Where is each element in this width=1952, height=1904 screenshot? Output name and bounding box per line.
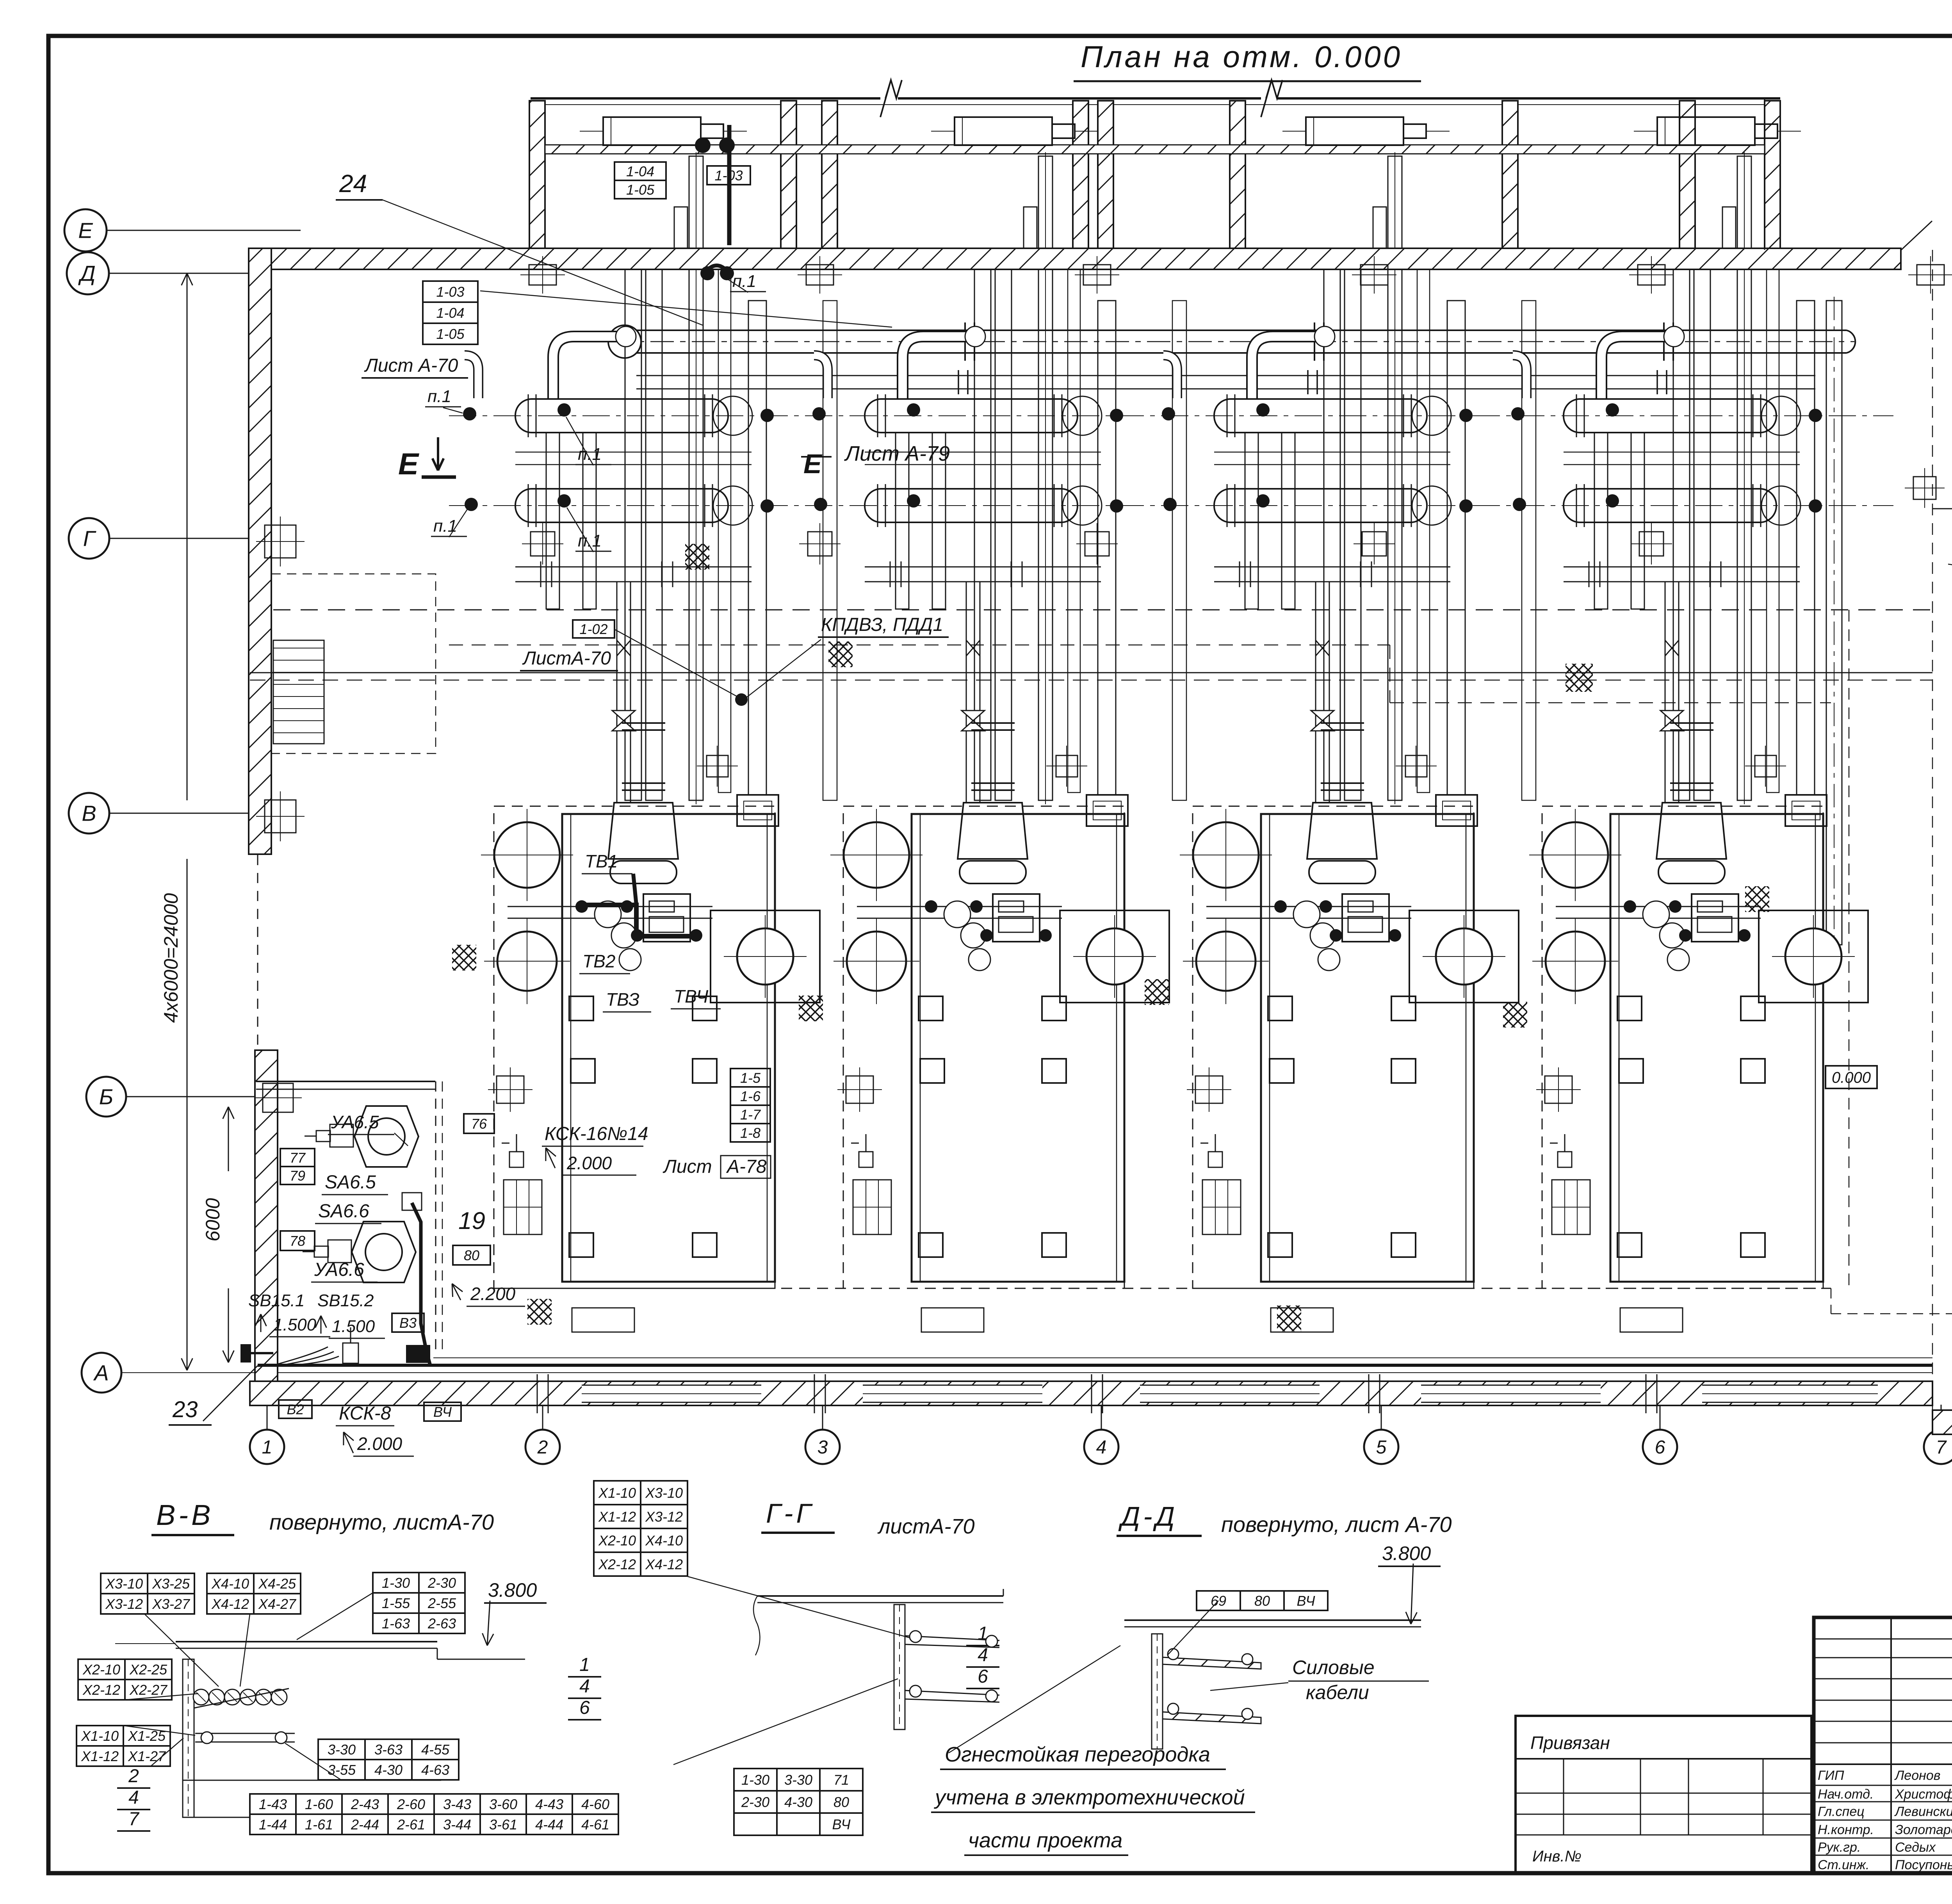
svg-text:3-61: 3-61 (489, 1817, 517, 1833)
svg-text:1-04: 1-04 (436, 305, 464, 321)
svg-text:Х1-12: Х1-12 (81, 1748, 119, 1764)
svg-text:Б: Б (99, 1085, 113, 1109)
svg-text:6: 6 (579, 1697, 590, 1718)
svg-text:листА-70: листА-70 (877, 1515, 975, 1538)
svg-text:Х1-12: Х1-12 (598, 1509, 636, 1525)
svg-text:4-55: 4-55 (421, 1742, 450, 1758)
svg-text:кабели: кабели (1306, 1681, 1369, 1703)
svg-text:В2: В2 (287, 1401, 304, 1417)
svg-text:2.000: 2.000 (357, 1434, 403, 1454)
svg-text:Д: Д (78, 261, 95, 286)
svg-text:19: 19 (458, 1208, 485, 1234)
svg-text:Х4-25: Х4-25 (258, 1576, 296, 1592)
svg-text:Посупонько: Посупонько (1895, 1858, 1952, 1872)
svg-text:Х1-27: Х1-27 (128, 1748, 166, 1764)
svg-text:1-30: 1-30 (741, 1772, 769, 1788)
svg-text:3: 3 (817, 1437, 828, 1458)
svg-text:п.1: п.1 (433, 517, 457, 536)
svg-text:80: 80 (1254, 1593, 1270, 1609)
svg-text:78: 78 (290, 1233, 305, 1249)
svg-text:1-61: 1-61 (305, 1817, 333, 1833)
svg-text:Ст.инж.: Ст.инж. (1818, 1858, 1869, 1872)
svg-text:3-30: 3-30 (784, 1772, 812, 1788)
svg-text:п.1: п.1 (578, 531, 602, 550)
svg-text:ТВЧ: ТВЧ (674, 986, 709, 1006)
svg-text:Христофоров: Христофоров (1895, 1787, 1952, 1802)
svg-text:Левинский: Левинский (1894, 1804, 1952, 1819)
svg-text:SA6.5: SA6.5 (325, 1172, 376, 1193)
svg-text:4: 4 (1096, 1437, 1107, 1458)
svg-text:Гл.спец: Гл.спец (1818, 1804, 1865, 1819)
svg-text:п.1: п.1 (732, 272, 756, 291)
svg-text:Х2-10: Х2-10 (598, 1532, 636, 1548)
svg-text:Г-Г: Г-Г (766, 1498, 814, 1528)
svg-text:Х3-27: Х3-27 (152, 1596, 191, 1612)
svg-text:Х4-10: Х4-10 (645, 1532, 683, 1548)
svg-text:SB15.1: SB15.1 (248, 1291, 305, 1310)
svg-text:3-30: 3-30 (328, 1742, 356, 1758)
svg-text:Силовые: Силовые (1292, 1656, 1375, 1678)
svg-text:2: 2 (128, 1766, 139, 1786)
svg-text:1.500: 1.500 (332, 1317, 375, 1336)
svg-text:4: 4 (579, 1676, 590, 1697)
svg-text:1-30: 1-30 (382, 1575, 410, 1591)
svg-text:6: 6 (1655, 1437, 1665, 1458)
svg-text:КСК-16№14: КСК-16№14 (545, 1124, 648, 1144)
svg-text:учтена в электротехнической: учтена в электротехнической (933, 1786, 1245, 1809)
svg-text:2-30: 2-30 (741, 1794, 769, 1810)
svg-text:части проекта: части проекта (968, 1829, 1122, 1852)
svg-text:1-55: 1-55 (382, 1595, 410, 1611)
svg-text:1-05: 1-05 (436, 326, 465, 342)
svg-text:повернуто, листА-70: повернуто, листА-70 (269, 1510, 494, 1534)
svg-text:1-05: 1-05 (626, 182, 655, 198)
svg-text:7: 7 (1936, 1437, 1947, 1458)
svg-text:Е: Е (398, 447, 419, 481)
svg-text:4-30: 4-30 (374, 1762, 403, 1778)
svg-text:71: 71 (834, 1772, 849, 1788)
svg-text:ТВ2: ТВ2 (582, 951, 615, 971)
svg-text:6: 6 (978, 1666, 988, 1687)
svg-text:3-55: 3-55 (328, 1762, 356, 1778)
svg-text:Х4-12: Х4-12 (645, 1556, 683, 1572)
svg-text:Привязан: Привязан (1530, 1733, 1610, 1753)
svg-text:3-60: 3-60 (489, 1796, 517, 1812)
svg-text:Х3-10: Х3-10 (105, 1576, 143, 1592)
svg-text:Золотарева: Золотарева (1895, 1822, 1952, 1837)
svg-text:3-44: 3-44 (443, 1817, 471, 1833)
svg-text:80: 80 (834, 1794, 849, 1810)
svg-text:2-61: 2-61 (397, 1817, 425, 1833)
svg-text:В-В: В-В (156, 1499, 214, 1531)
svg-text:Лист А-79: Лист А-79 (844, 442, 950, 465)
svg-text:ТВ1: ТВ1 (585, 851, 618, 871)
svg-text:Седых: Седых (1895, 1840, 1936, 1855)
svg-text:Х4-10: Х4-10 (211, 1576, 249, 1592)
svg-text:SB15.2: SB15.2 (317, 1291, 374, 1310)
svg-text:0.000: 0.000 (1832, 1069, 1871, 1086)
svg-text:Х2-10: Х2-10 (82, 1662, 120, 1678)
svg-text:1-7: 1-7 (740, 1106, 761, 1122)
svg-text:76: 76 (471, 1116, 487, 1132)
svg-text:6000: 6000 (202, 1198, 224, 1241)
svg-text:А-78: А-78 (726, 1156, 767, 1177)
svg-text:Х1-10: Х1-10 (598, 1485, 636, 1501)
svg-text:Леонов: Леонов (1894, 1768, 1941, 1783)
svg-text:1.500: 1.500 (273, 1315, 317, 1334)
svg-text:80: 80 (464, 1247, 479, 1263)
svg-text:2.200: 2.200 (470, 1284, 516, 1304)
svg-text:4: 4 (128, 1787, 139, 1808)
svg-text:2-30: 2-30 (427, 1575, 456, 1591)
svg-text:ГИП: ГИП (1818, 1768, 1844, 1783)
svg-text:Х2-25: Х2-25 (129, 1662, 167, 1678)
svg-text:SA6.6: SA6.6 (318, 1201, 369, 1222)
svg-text:1-60: 1-60 (305, 1796, 333, 1812)
svg-text:А: А (93, 1361, 109, 1385)
svg-text:Д-Д: Д-Д (1118, 1501, 1178, 1532)
svg-text:1-5: 1-5 (740, 1070, 761, 1086)
svg-text:4-63: 4-63 (421, 1762, 449, 1778)
svg-text:Н.контр.: Н.контр. (1818, 1822, 1874, 1837)
svg-text:Х3-12: Х3-12 (645, 1509, 683, 1525)
svg-text:4: 4 (978, 1645, 988, 1665)
svg-text:КСК-8: КСК-8 (339, 1403, 391, 1424)
svg-text:1-6: 1-6 (740, 1088, 761, 1104)
svg-text:4-30: 4-30 (784, 1794, 812, 1810)
svg-text:79: 79 (290, 1168, 305, 1184)
svg-text:ВЧ: ВЧ (433, 1404, 452, 1420)
svg-text:4-60: 4-60 (581, 1796, 609, 1812)
svg-text:2-63: 2-63 (427, 1615, 456, 1631)
svg-text:ВЧ: ВЧ (1297, 1593, 1315, 1609)
svg-text:1: 1 (579, 1655, 590, 1675)
svg-text:п.1: п.1 (578, 445, 602, 464)
svg-text:77: 77 (290, 1150, 306, 1166)
svg-text:Х4-12: Х4-12 (211, 1596, 249, 1612)
svg-text:2-44: 2-44 (351, 1817, 379, 1833)
svg-text:Х2-12: Х2-12 (598, 1556, 636, 1572)
svg-text:Х2-12: Х2-12 (82, 1682, 120, 1698)
svg-text:повернуто, лист А-70: повернуто, лист А-70 (1221, 1512, 1452, 1537)
svg-text:Рук.гр.: Рук.гр. (1818, 1840, 1861, 1855)
svg-text:УА6.6: УА6.6 (314, 1259, 364, 1280)
svg-text:п.1: п.1 (427, 387, 451, 406)
svg-text:2-55: 2-55 (427, 1595, 456, 1611)
svg-text:Е: Е (803, 449, 823, 479)
svg-text:1-43: 1-43 (259, 1796, 287, 1812)
svg-text:Х3-12: Х3-12 (105, 1596, 143, 1612)
svg-text:3.800: 3.800 (488, 1579, 537, 1601)
svg-text:3-43: 3-43 (443, 1796, 471, 1812)
svg-text:1-04: 1-04 (626, 163, 654, 179)
svg-text:23: 23 (172, 1397, 198, 1422)
svg-text:Х1-10: Х1-10 (81, 1728, 119, 1744)
svg-text:3-63: 3-63 (374, 1742, 403, 1758)
svg-text:Лист: Лист (663, 1156, 712, 1177)
svg-text:4-61: 4-61 (581, 1817, 609, 1833)
svg-text:4-43: 4-43 (535, 1796, 563, 1812)
svg-text:1: 1 (262, 1437, 272, 1458)
svg-text:ЛистА-70: ЛистА-70 (522, 648, 611, 669)
svg-text:УА6.5: УА6.5 (331, 1112, 379, 1132)
svg-text:Х4-27: Х4-27 (258, 1596, 297, 1612)
svg-text:Нач.отд.: Нач.отд. (1818, 1787, 1874, 1802)
svg-text:4x6000=24000: 4x6000=24000 (160, 893, 182, 1023)
svg-text:7: 7 (128, 1809, 140, 1829)
svg-text:ТВЗ: ТВЗ (606, 989, 639, 1010)
svg-text:4-44: 4-44 (535, 1817, 563, 1833)
svg-text:3.800: 3.800 (1382, 1542, 1431, 1564)
svg-text:Инв.№: Инв.№ (1532, 1848, 1582, 1865)
svg-text:1-63: 1-63 (382, 1615, 410, 1631)
svg-text:24: 24 (339, 169, 367, 198)
svg-text:Х3-10: Х3-10 (645, 1485, 683, 1501)
svg-text:В: В (82, 801, 96, 826)
svg-text:ВЧ: ВЧ (832, 1816, 851, 1832)
svg-text:1-44: 1-44 (259, 1817, 287, 1833)
svg-text:Х2-27: Х2-27 (129, 1682, 168, 1698)
svg-text:Огнестойкая перегородка: Огнестойкая перегородка (945, 1743, 1210, 1766)
svg-text:2-60: 2-60 (397, 1796, 425, 1812)
svg-text:Лист А-70: Лист А-70 (364, 355, 458, 376)
svg-text:1-02: 1-02 (579, 621, 607, 637)
svg-text:План на отм. 0.000: План на отм. 0.000 (1081, 39, 1402, 74)
svg-text:Х3-25: Х3-25 (152, 1576, 190, 1592)
svg-text:Г: Г (83, 526, 96, 551)
svg-text:В3: В3 (399, 1315, 417, 1331)
svg-text:1-03: 1-03 (436, 284, 464, 300)
svg-text:2-43: 2-43 (351, 1796, 379, 1812)
svg-text:Е: Е (78, 218, 93, 243)
svg-text:КПДВЗ, ПДД1: КПДВЗ, ПДД1 (821, 614, 943, 635)
svg-text:5: 5 (1376, 1437, 1387, 1458)
svg-text:2: 2 (537, 1437, 548, 1458)
svg-text:2.000: 2.000 (566, 1153, 612, 1173)
svg-text:1-8: 1-8 (740, 1125, 760, 1141)
